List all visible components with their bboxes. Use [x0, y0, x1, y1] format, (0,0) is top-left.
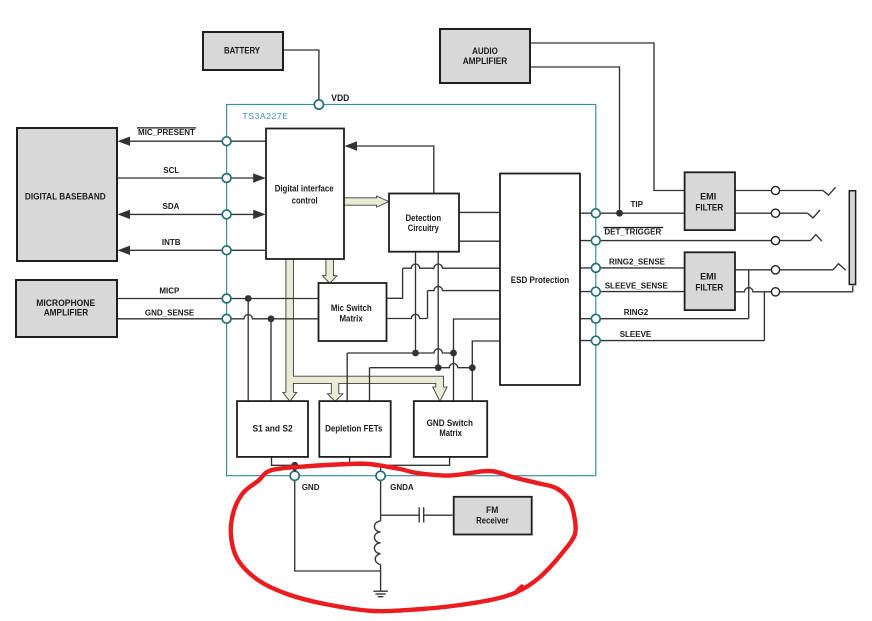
- svg-text:TIP: TIP: [630, 200, 643, 209]
- svg-text:SLEEVE: SLEEVE: [620, 330, 652, 339]
- svg-text:Depletion FETs: Depletion FETs: [325, 423, 382, 434]
- svg-text:EMI: EMI: [700, 192, 716, 203]
- svg-text:INTB: INTB: [162, 238, 181, 247]
- svg-text:MICP: MICP: [159, 287, 180, 296]
- svg-text:FILTER: FILTER: [695, 282, 723, 293]
- svg-text:control: control: [292, 195, 318, 206]
- svg-text:Receiver: Receiver: [476, 516, 509, 527]
- svg-text:EMI: EMI: [700, 272, 716, 283]
- svg-text:GND: GND: [302, 483, 320, 492]
- svg-text:FILTER: FILTER: [695, 202, 723, 213]
- svg-text:GNDA: GNDA: [390, 483, 414, 492]
- svg-text:DIGITAL BASEBAND: DIGITAL BASEBAND: [25, 191, 106, 202]
- svg-text:S1 and S2: S1 and S2: [253, 424, 293, 435]
- svg-text:AMPLIFIER: AMPLIFIER: [44, 308, 89, 319]
- svg-text:MIC_PRESENT: MIC_PRESENT: [138, 128, 195, 137]
- svg-text:GND_SENSE: GND_SENSE: [145, 309, 195, 318]
- svg-text:Matrix: Matrix: [439, 428, 462, 439]
- svg-text:SDA: SDA: [163, 202, 180, 211]
- svg-text:BATTERY: BATTERY: [224, 45, 261, 56]
- svg-text:RING2_SENSE: RING2_SENSE: [609, 257, 666, 266]
- svg-text:VDD: VDD: [331, 93, 349, 103]
- svg-text:SLEEVE_SENSE: SLEEVE_SENSE: [605, 282, 669, 291]
- svg-text:RING2: RING2: [624, 308, 649, 317]
- svg-text:Digital interface: Digital interface: [275, 184, 334, 195]
- svg-text:DET_TRIGGER: DET_TRIGGER: [604, 228, 661, 237]
- svg-text:AMPLIFIER: AMPLIFIER: [463, 56, 508, 67]
- svg-text:Circuitry: Circuitry: [408, 223, 440, 234]
- svg-text:ESD Protection: ESD Protection: [511, 275, 570, 286]
- svg-text:Matrix: Matrix: [340, 313, 364, 324]
- svg-text:TS3A227E: TS3A227E: [243, 111, 289, 121]
- svg-text:SCL: SCL: [163, 166, 179, 175]
